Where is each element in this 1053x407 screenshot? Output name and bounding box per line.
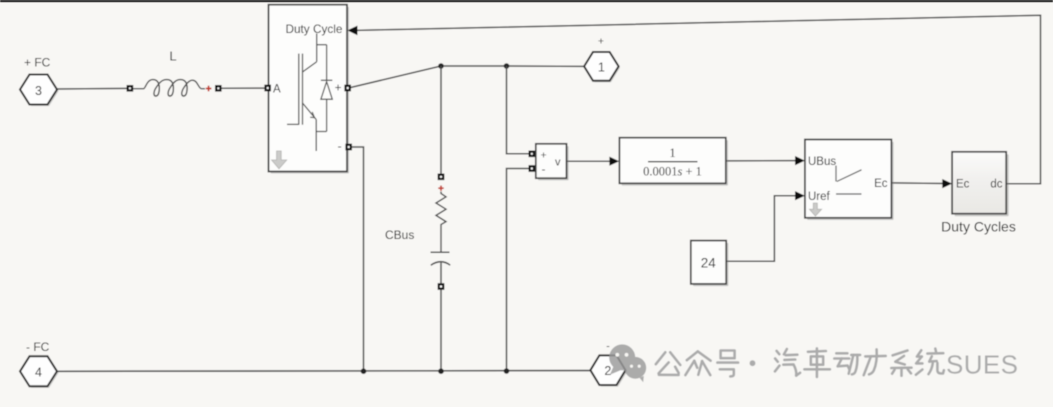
svg-text:L: L (169, 49, 176, 64)
svg-text:+: + (598, 36, 604, 48)
wire: constant 24 to Uref input (726, 196, 797, 262)
top window border bar (0, 0, 1053, 2)
svg-text:24: 24 (701, 255, 717, 270)
red polarity + CBus (438, 186, 443, 191)
port 2 hexagon (- out) (590, 355, 627, 386)
wire: voltmeter output to transfer fcn (567, 160, 612, 162)
wire: node down to voltmeter + input (507, 66, 530, 154)
watermark wechat icon big bubble (609, 344, 646, 382)
svg-text:Ec: Ec (956, 179, 970, 191)
char 号 (717, 351, 738, 377)
svg-text:-: - (542, 162, 546, 176)
voltmeter block U_v (536, 144, 569, 181)
char 统 (916, 349, 944, 375)
svg-text:+ FC: + FC (24, 55, 51, 69)
svg-text:1: 1 (669, 146, 675, 160)
junction dot bus x363.5 (361, 368, 367, 374)
voltmeter port square - (529, 165, 536, 172)
converter block (Duty Cycle boost) (269, 5, 350, 174)
wire: transfer fcn output to UBus input (726, 160, 798, 162)
svg-text:Ec: Ec (874, 178, 888, 190)
port 3 hexagon (+FC in) (20, 75, 59, 107)
red polarity + after L (206, 86, 212, 92)
wire: bottom bus port4 to port2 (58, 370, 591, 373)
CBus resistor zigzag (436, 192, 446, 253)
junction dot bus x506.5 (504, 368, 510, 374)
svg-text:Duty Cycle: Duty Cycle (285, 22, 342, 36)
node junction dot at x441 (438, 63, 444, 69)
port marker - output (345, 144, 352, 151)
arrowhead into Uref (795, 191, 805, 200)
wire: port3 to inductor L (57, 87, 127, 90)
port 1 hexagon (+ out) (584, 52, 620, 82)
svg-text:3: 3 (35, 84, 42, 98)
inductor L port square right (215, 85, 222, 92)
svg-text:+: + (541, 149, 547, 161)
char 力 (864, 349, 886, 375)
svg-text:4: 4 (35, 366, 42, 380)
wire: converter - output down to bottom bus (351, 147, 364, 371)
svg-text:Uref: Uref (808, 191, 831, 203)
char 动 (834, 353, 860, 374)
svg-text:2: 2 (604, 364, 611, 378)
svg-text:v: v (555, 157, 561, 169)
port marker A input (264, 85, 271, 92)
char 众 (685, 351, 710, 375)
gray mask arrow controller (810, 203, 822, 216)
wire: converter + output to node, to port 1 (349, 66, 585, 88)
wire: inductor L to converter A input (221, 87, 266, 89)
CBus bottom port square (438, 283, 445, 290)
svg-text:dc: dc (990, 179, 1002, 191)
IGBT/diode icon inside converter (287, 34, 332, 152)
arrowhead into transfer fcn (609, 157, 619, 166)
svg-text:-: - (338, 140, 342, 154)
wechat bubble eyes (615, 353, 640, 368)
junction dot bus x441 (438, 368, 444, 374)
Duty Cycles subsystem block (952, 152, 1009, 216)
svg-text:Duty Cycles: Duty Cycles (941, 219, 1016, 235)
node junction dot at x506.5 (504, 63, 510, 69)
constant block 24 (691, 241, 729, 287)
arrowhead into Duty Cycle input (347, 26, 357, 36)
char 车 (804, 348, 830, 377)
separator dot (750, 360, 756, 366)
voltmeter port square + (529, 151, 536, 158)
controller block UBus/Uref (805, 140, 894, 221)
transfer fcn block 1/(0.0001s+1) (619, 138, 728, 186)
svg-text:-: - (606, 341, 610, 353)
arrowhead into Duty Cycles Ec (942, 179, 952, 188)
port marker + output (344, 85, 351, 92)
port 4 hexagon (-FC in) (20, 356, 59, 388)
wire: CBus bottom to bus (440, 290, 442, 372)
gray mask arrow converter (272, 151, 287, 169)
inductor L port square left (127, 85, 134, 92)
watermark text 公众号 · 汽车动力系统 (hand drawn strokes) + SUES (656, 348, 944, 377)
wire: node to CBus top (440, 66, 442, 174)
char 汽 (775, 349, 800, 376)
svg-text:0.0001s + 1: 0.0001s + 1 (643, 165, 702, 179)
CBus top port square (438, 174, 445, 181)
svg-text:1: 1 (598, 61, 605, 75)
svg-text:CBus: CBus (385, 228, 414, 242)
inductor L coil (133, 80, 205, 96)
svg-text:UBus: UBus (808, 156, 836, 168)
svg-text:SUES: SUES (946, 350, 1018, 380)
wire: voltmeter - input down to bottom bus (507, 169, 530, 372)
svg-text:A: A (273, 84, 281, 96)
controller icon (step/ramp) (836, 166, 862, 195)
char 系 (891, 351, 911, 376)
wire: controller Ec output to Duty Cycles block (891, 182, 945, 185)
svg-text:+: + (335, 83, 342, 95)
svg-text:- FC: - FC (26, 340, 50, 354)
char 公 (656, 352, 681, 375)
arrowhead into UBus (795, 156, 805, 165)
CBus capacitor plates (431, 252, 451, 283)
wire: feedback dc output to Duty Cycle input (top long wire) (356, 15, 1041, 183)
